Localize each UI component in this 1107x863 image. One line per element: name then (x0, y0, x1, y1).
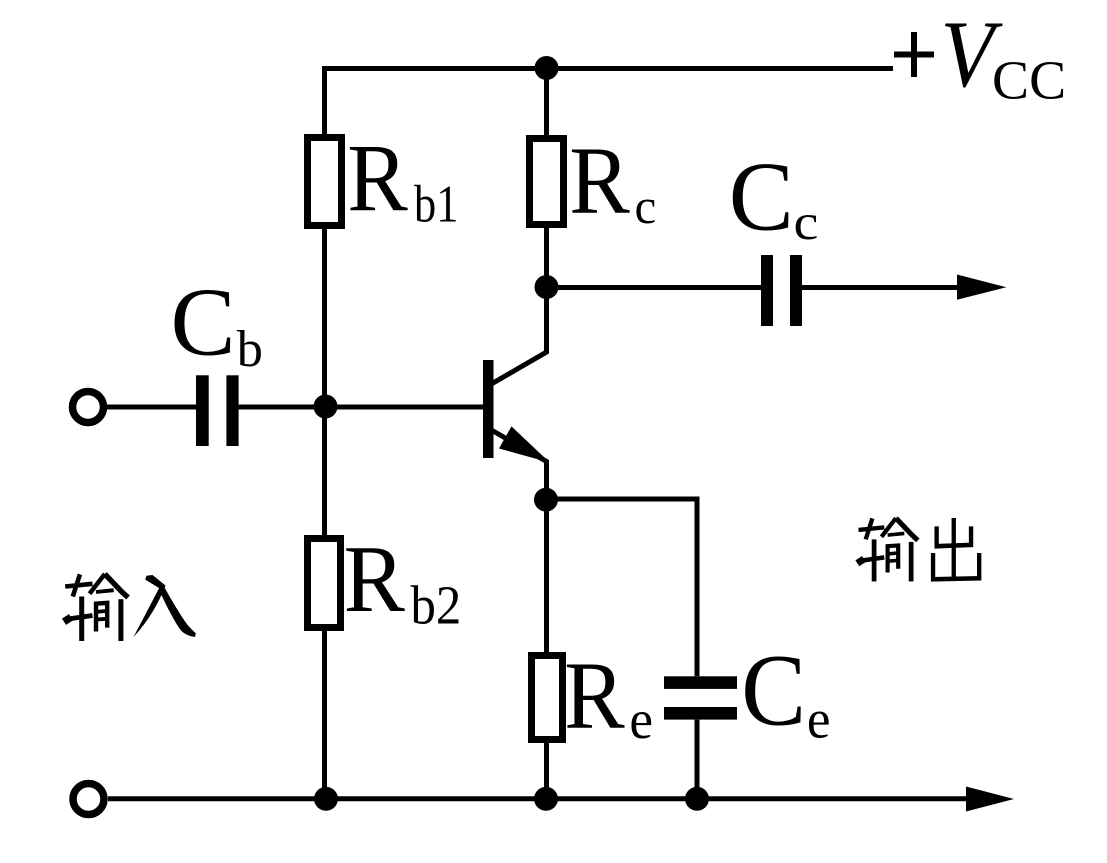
svg-text:R: R (564, 643, 625, 749)
svg-text:b1: b1 (414, 175, 458, 233)
svg-text:e: e (629, 689, 653, 750)
svg-text:CC: CC (992, 50, 1066, 111)
svg-text:c: c (635, 179, 657, 234)
svg-text:b2: b2 (411, 576, 462, 636)
svg-text:C: C (729, 143, 794, 252)
svg-text:c: c (794, 195, 819, 251)
svg-text:e: e (807, 689, 831, 750)
svg-text:b: b (237, 321, 263, 378)
svg-text:R: R (569, 128, 630, 234)
svg-text:R: R (347, 126, 408, 232)
svg-text:C: C (741, 633, 806, 747)
svg-text:C: C (171, 268, 236, 376)
svg-text:R: R (344, 527, 406, 632)
